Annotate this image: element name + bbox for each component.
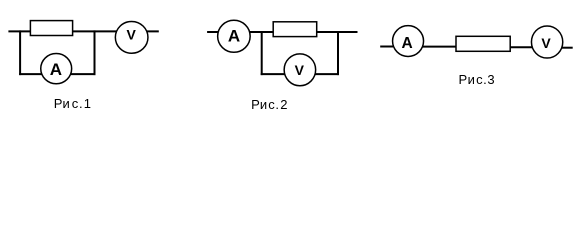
wire: fig2 right branch vertical (337, 31, 339, 75)
wire: fig2 bottom horizontal (voltmeter branch) (261, 73, 339, 75)
wire: fig3 right stub (562, 47, 573, 49)
ammeter A (fig3) (393, 26, 424, 57)
wire: fig1 left branch vertical (19, 30, 21, 75)
wire: fig3 left stub (380, 46, 393, 48)
svg-text:A: A (401, 35, 412, 52)
svg-text:V: V (127, 27, 137, 43)
svg-text:Рис.1: Рис.1 (54, 96, 91, 111)
wire: fig1 bottom horizontal (ammeter branch) (19, 73, 95, 75)
resistor (fig2) (273, 22, 317, 37)
wire: fig1 right branch vertical (94, 30, 96, 75)
svg-text:Рис.2: Рис.2 (251, 97, 287, 112)
wire: fig1 main horizontal (8, 30, 158, 32)
voltmeter V (fig3) (531, 26, 562, 58)
wire: fig2 left branch vertical (261, 31, 263, 75)
svg-text:Рис.3: Рис.3 (459, 72, 495, 87)
voltmeter V (fig2) (284, 54, 316, 86)
svg-text:A: A (228, 26, 240, 45)
ammeter A (fig1) (41, 54, 72, 84)
resistor (fig3) (456, 36, 510, 51)
svg-text:A: A (50, 60, 62, 79)
resistor (fig1) (30, 21, 72, 36)
ammeter A (fig2) (218, 20, 251, 52)
wire: fig2 main horizontal (207, 31, 357, 33)
wire: fig3 ammeter to resistor (422, 46, 457, 48)
svg-text:V: V (541, 35, 551, 51)
wire: fig3 resistor to voltmeter (509, 46, 532, 48)
svg-text:V: V (295, 62, 305, 78)
voltmeter V (fig1) (115, 21, 148, 53)
